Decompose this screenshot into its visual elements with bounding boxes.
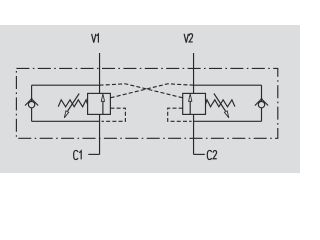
relief valve RV1 body xyxy=(88,93,111,114)
adjustment arrow RV1 shaft xyxy=(68,94,80,112)
relief valve RV2 flow arrow head xyxy=(189,94,192,101)
relief valve RV1 flow arrow shaft xyxy=(102,101,104,114)
check valve CV2 seat xyxy=(255,99,268,106)
spring RV2 xyxy=(206,100,235,107)
label C1 xyxy=(74,150,82,159)
check valve CV1 seat xyxy=(25,99,38,106)
wire right subcircuit bottom edge xyxy=(194,120,262,122)
gray drawing band xyxy=(0,25,300,173)
wire V2 port line upper xyxy=(193,53,195,93)
check valve CV1 ball xyxy=(28,101,34,107)
node CV1 seat junction xyxy=(31,98,33,100)
pilot line RV2 drain loop (dashed) xyxy=(168,108,192,121)
wire C2 tick xyxy=(194,153,205,155)
label V1 xyxy=(92,34,99,43)
label V2 xyxy=(184,34,193,43)
node CV2 seat junction xyxy=(261,98,263,100)
spring RV1 xyxy=(58,100,87,107)
relief valve RV1 flow arrow head xyxy=(101,94,104,101)
label C2 xyxy=(207,150,216,159)
wire left subcircuit left edge xyxy=(31,85,33,121)
wire V2 port line lower xyxy=(193,114,195,154)
pilot line RV1 drain loop (dashed) xyxy=(102,108,126,121)
pilot line V2 to RV1 (dashed cross) xyxy=(110,84,193,98)
wire V1 port line upper xyxy=(99,53,101,93)
wire left subcircuit bottom edge xyxy=(32,120,100,122)
check valve CV2 ball xyxy=(258,101,264,107)
wire right subcircuit top edge xyxy=(194,84,262,86)
wire left subcircuit top edge xyxy=(32,84,100,86)
pilot line V1 to RV2 (dashed cross) xyxy=(100,84,183,98)
wire V1 port line lower xyxy=(99,114,101,154)
enclosure boundary (dash-dot) xyxy=(16,68,277,138)
adjustment arrow RV1 head xyxy=(64,111,68,118)
relief valve RV2 flow arrow shaft xyxy=(189,101,191,114)
relief valve RV2 body xyxy=(183,93,206,114)
adjustment arrow RV2 shaft xyxy=(214,94,226,112)
wire right subcircuit right edge xyxy=(261,85,263,121)
wire C1 tick xyxy=(88,153,99,155)
adjustment arrow RV2 head xyxy=(224,111,228,118)
